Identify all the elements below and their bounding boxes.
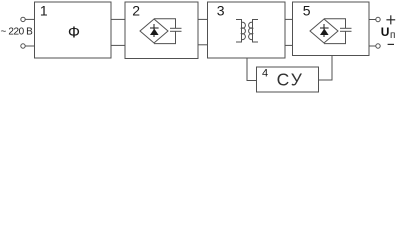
svg-text:СУ: СУ [277, 69, 304, 89]
label 3 [217, 2, 225, 18]
svg-text:~ 220 В: ~ 220 В [1, 27, 34, 38]
svg-text:4: 4 [262, 67, 268, 79]
wire capacitor bottom to bridge block2 [154, 31, 176, 43]
wire bridge top to capacitor block5 [324, 19, 346, 29]
label minus [388, 43, 394, 45]
output terminal plus [376, 17, 380, 21]
wire block3-block5 bottom [285, 44, 293, 46]
bridge rectifier diamond block5 [310, 19, 338, 43]
label 4 [262, 67, 268, 79]
wire block5 to control unit [319, 56, 333, 80]
capacitor block5 [340, 28, 352, 31]
label Uп output voltage [381, 25, 396, 41]
wire block3-block5 top [285, 18, 293, 20]
wire output bottom lead [369, 45, 376, 47]
wire output top lead [369, 19, 376, 21]
transformer secondary winding [249, 20, 258, 43]
block 5 output rectifier box [293, 2, 370, 56]
wire block2-block3 top [198, 18, 208, 20]
svg-text:3: 3 [217, 2, 225, 18]
label 5 [303, 2, 311, 18]
wire block2-block3 bottom [198, 44, 208, 46]
block 4 control unit box [257, 67, 319, 92]
diode inside bridge block2 [150, 24, 159, 37]
block 3 transformer box [208, 2, 286, 58]
wire block1-block2 top [111, 18, 125, 20]
block 2 rectifier box [125, 2, 198, 59]
label 2 [132, 2, 140, 18]
label СУ control unit [277, 69, 304, 89]
wire bridge top to capacitor block2 [154, 19, 176, 29]
label plus [386, 15, 395, 24]
label 1 [40, 2, 48, 18]
svg-text:5: 5 [303, 2, 311, 18]
bridge rectifier diamond block2 [140, 19, 168, 43]
label Ф filter symbol [68, 25, 80, 42]
label ~220 В mains voltage [1, 27, 34, 38]
input terminal bottom [21, 44, 25, 48]
block 1 filter box [35, 2, 112, 58]
svg-text:2: 2 [132, 2, 140, 18]
svg-text:Ф: Ф [68, 25, 80, 42]
svg-text:U: U [381, 25, 390, 39]
wire input top lead [25, 18, 34, 20]
svg-text:п: п [390, 30, 395, 41]
svg-text:1: 1 [40, 2, 48, 18]
wire block1-block2 bottom [111, 44, 125, 46]
diode inside bridge block5 [320, 24, 329, 37]
wire capacitor bottom to bridge block5 [324, 31, 346, 43]
transformer primary winding [236, 20, 245, 43]
wire block3 to control unit [247, 59, 257, 81]
capacitor block2 [170, 28, 182, 31]
output terminal minus [376, 44, 380, 48]
wire input bottom lead [25, 45, 34, 47]
input terminal top [21, 17, 25, 21]
